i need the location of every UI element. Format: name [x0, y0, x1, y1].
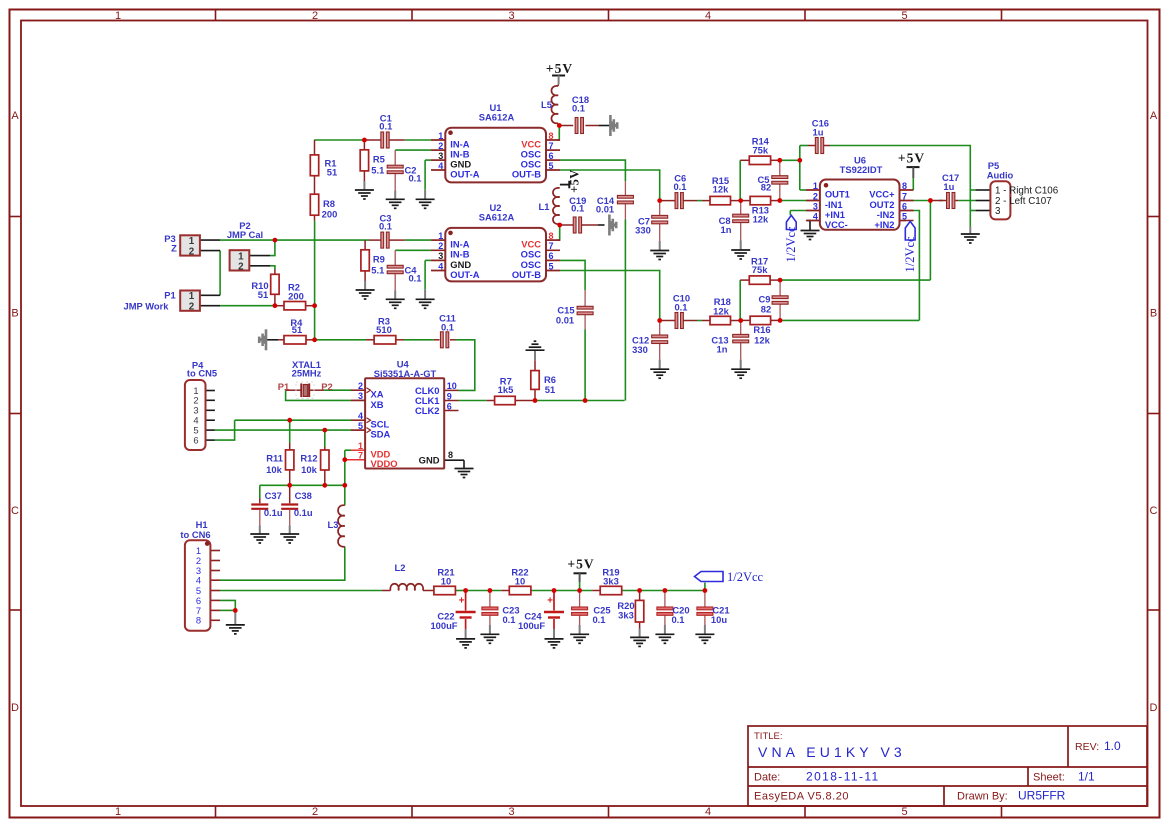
svg-text:51: 51	[258, 289, 268, 300]
svg-text:+5V: +5V	[898, 151, 925, 166]
svg-text:2: 2	[813, 191, 818, 201]
svg-text:0.1: 0.1	[673, 181, 686, 192]
svg-text:REV:: REV:	[1075, 741, 1099, 753]
svg-text:5: 5	[902, 211, 907, 221]
svg-text:12k: 12k	[713, 184, 729, 195]
svg-text:4: 4	[358, 411, 363, 421]
svg-text:7: 7	[358, 451, 363, 461]
svg-text:1u: 1u	[813, 126, 824, 137]
svg-text:to CN6: to CN6	[180, 529, 210, 540]
svg-text:6: 6	[549, 151, 554, 161]
svg-text:10: 10	[441, 576, 451, 587]
svg-text:L1: L1	[539, 201, 550, 212]
svg-text:0.01: 0.01	[556, 314, 574, 325]
svg-text:OUT-A: OUT-A	[450, 269, 479, 280]
svg-text:10u: 10u	[711, 614, 727, 625]
svg-text:5: 5	[549, 161, 554, 171]
svg-text:GND: GND	[419, 455, 440, 466]
svg-text:A: A	[1150, 110, 1158, 122]
svg-text:0.1: 0.1	[408, 172, 421, 183]
svg-text:+: +	[459, 596, 465, 607]
svg-text:200: 200	[322, 209, 338, 220]
svg-text:0.1: 0.1	[379, 121, 392, 132]
svg-text:1: 1	[813, 181, 818, 191]
svg-text:XB: XB	[371, 399, 384, 410]
svg-text:3k3: 3k3	[618, 609, 634, 620]
svg-text:75k: 75k	[752, 145, 768, 156]
svg-text:0.1: 0.1	[571, 203, 584, 214]
svg-text:OUT-B: OUT-B	[512, 168, 541, 179]
svg-text:CLK2: CLK2	[415, 405, 439, 416]
svg-text:Z: Z	[171, 242, 177, 253]
svg-text:3: 3	[508, 10, 514, 22]
svg-text:0.1: 0.1	[592, 614, 605, 625]
svg-text:2: 2	[189, 246, 195, 257]
svg-text:C: C	[11, 505, 19, 517]
svg-text:10k: 10k	[301, 464, 317, 475]
svg-text:+5V: +5V	[567, 557, 594, 572]
svg-text:C: C	[1150, 505, 1158, 517]
svg-text:1: 1	[438, 131, 443, 141]
svg-text:+5V: +5V	[568, 169, 582, 193]
svg-text:Date:: Date:	[754, 772, 780, 784]
svg-text:82: 82	[761, 182, 771, 193]
svg-text:5: 5	[549, 261, 554, 271]
svg-text:0.1u: 0.1u	[264, 507, 283, 518]
svg-text:UR5FFR: UR5FFR	[1018, 789, 1066, 803]
svg-text:200: 200	[288, 291, 304, 302]
svg-text:2: 2	[438, 141, 443, 151]
svg-text:100uF: 100uF	[518, 620, 545, 631]
svg-text:51: 51	[545, 384, 555, 395]
svg-text:1/2Vcc: 1/2Vcc	[727, 570, 764, 584]
svg-text:2: 2	[358, 381, 363, 391]
svg-text:1: 1	[115, 10, 121, 22]
svg-text:6: 6	[447, 401, 452, 411]
svg-text:VNA EU1KY V3: VNA EU1KY V3	[758, 744, 906, 760]
svg-text:R8: R8	[323, 198, 335, 209]
svg-text:JMP Work: JMP Work	[124, 301, 170, 312]
svg-text:1/2Vcc: 1/2Vcc	[784, 226, 798, 263]
svg-text:4: 4	[705, 10, 711, 22]
svg-text:2: 2	[238, 262, 244, 273]
svg-text:8: 8	[549, 131, 554, 141]
svg-text:8: 8	[196, 615, 201, 626]
svg-text:R5: R5	[373, 154, 385, 165]
svg-text:51: 51	[327, 167, 337, 178]
svg-text:12k: 12k	[754, 334, 770, 345]
svg-text:0.1: 0.1	[441, 322, 454, 333]
svg-text:VCC+: VCC+	[869, 188, 895, 199]
svg-text:4: 4	[705, 806, 711, 818]
svg-text:0.1: 0.1	[671, 614, 684, 625]
svg-text:C38: C38	[295, 490, 312, 501]
svg-text:4: 4	[438, 261, 443, 271]
svg-text:4: 4	[438, 161, 443, 171]
svg-text:0.1: 0.1	[502, 614, 515, 625]
svg-text:8: 8	[448, 450, 453, 460]
svg-text:Audio: Audio	[987, 169, 1014, 180]
svg-text:510: 510	[376, 324, 392, 335]
svg-text:12k: 12k	[753, 213, 769, 224]
svg-text:3: 3	[358, 391, 363, 401]
svg-text:1/2Vcc: 1/2Vcc	[903, 236, 917, 273]
svg-text:L2: L2	[395, 562, 406, 573]
svg-text:D: D	[1150, 702, 1158, 714]
svg-text:3: 3	[438, 251, 443, 261]
svg-text:3: 3	[438, 151, 443, 161]
svg-text:0.1: 0.1	[572, 103, 585, 114]
svg-text:1: 1	[358, 441, 363, 451]
svg-text:OUT1: OUT1	[825, 188, 850, 199]
svg-text:Drawn By:: Drawn By:	[957, 791, 1008, 803]
svg-text:L5: L5	[541, 99, 552, 110]
svg-text:5: 5	[358, 421, 363, 431]
svg-text:1k5: 1k5	[498, 384, 514, 395]
svg-text:P1: P1	[278, 381, 289, 392]
svg-text:3: 3	[813, 201, 818, 211]
svg-text:TS922IDT: TS922IDT	[840, 164, 883, 175]
svg-text:2: 2	[189, 302, 195, 313]
svg-text:2018-11-11: 2018-11-11	[806, 770, 880, 784]
svg-text:TITLE:: TITLE:	[754, 731, 783, 742]
svg-text:to CN5: to CN5	[187, 368, 217, 379]
svg-text:4: 4	[813, 211, 818, 221]
svg-text:+: +	[547, 596, 553, 607]
svg-text:1u: 1u	[943, 181, 954, 192]
svg-text:JMP Cal: JMP Cal	[227, 229, 263, 240]
svg-text:5.1: 5.1	[371, 264, 384, 275]
svg-text:10: 10	[447, 381, 457, 391]
svg-text:0.1: 0.1	[674, 302, 687, 313]
svg-text:330: 330	[635, 224, 651, 235]
svg-text:1.0: 1.0	[1104, 739, 1121, 753]
svg-text:1 - Right C106: 1 - Right C106	[995, 186, 1059, 197]
svg-text:10k: 10k	[266, 464, 282, 475]
svg-text:B: B	[1150, 308, 1157, 320]
svg-text:5: 5	[901, 10, 907, 22]
svg-text:2: 2	[438, 241, 443, 251]
svg-text:100uF: 100uF	[430, 620, 457, 631]
svg-text:EasyEDA V5.8.20: EasyEDA V5.8.20	[754, 791, 849, 803]
svg-text:A: A	[11, 110, 19, 122]
svg-text:1: 1	[115, 806, 121, 818]
svg-text:1n: 1n	[721, 224, 732, 235]
svg-text:0.01: 0.01	[596, 204, 614, 215]
svg-text:SDA: SDA	[371, 429, 391, 440]
svg-text:+IN2: +IN2	[874, 219, 894, 230]
svg-text:5: 5	[901, 806, 907, 818]
svg-text:OUT-B: OUT-B	[512, 269, 541, 280]
svg-text:6: 6	[902, 201, 907, 211]
svg-text:3k3: 3k3	[603, 576, 619, 587]
svg-text:82: 82	[761, 304, 771, 315]
svg-text:1: 1	[189, 236, 195, 247]
svg-text:L3: L3	[328, 519, 339, 530]
svg-text:1: 1	[189, 291, 195, 302]
svg-text:330: 330	[632, 344, 648, 355]
svg-text:2 - Left C107: 2 - Left C107	[995, 196, 1052, 207]
svg-text:+5V: +5V	[546, 61, 573, 76]
svg-text:9: 9	[447, 391, 452, 401]
svg-text:C37: C37	[265, 490, 282, 501]
svg-text:Sheet:: Sheet:	[1033, 772, 1065, 784]
svg-text:SA612A: SA612A	[479, 112, 515, 123]
svg-text:7: 7	[549, 141, 554, 151]
svg-text:25MHz: 25MHz	[292, 368, 322, 379]
svg-text:8: 8	[549, 231, 554, 241]
svg-text:2: 2	[312, 10, 318, 22]
svg-text:0.1u: 0.1u	[294, 507, 313, 518]
svg-text:12k: 12k	[713, 306, 729, 317]
svg-text:D: D	[11, 702, 19, 714]
svg-text:0.1: 0.1	[379, 221, 392, 232]
svg-text:1n: 1n	[717, 344, 728, 355]
svg-text:Si5351A-A-GT: Si5351A-A-GT	[374, 368, 437, 379]
svg-text:VDDO: VDDO	[371, 458, 398, 469]
svg-text:5.1: 5.1	[371, 164, 384, 175]
svg-text:8: 8	[902, 181, 907, 191]
svg-text:P1: P1	[164, 290, 175, 301]
svg-text:1: 1	[438, 231, 443, 241]
svg-text:R9: R9	[373, 254, 385, 265]
svg-text:6: 6	[193, 435, 198, 446]
svg-text:51: 51	[292, 324, 302, 335]
svg-text:R12: R12	[300, 452, 317, 463]
svg-text:3: 3	[995, 206, 1001, 217]
svg-text:B: B	[11, 308, 18, 320]
svg-text:SA612A: SA612A	[479, 211, 515, 222]
svg-text:VCC-: VCC-	[825, 219, 848, 230]
svg-text:0.1: 0.1	[408, 272, 421, 283]
svg-text:1/1: 1/1	[1078, 770, 1095, 784]
svg-text:75k: 75k	[752, 264, 768, 275]
svg-text:2: 2	[312, 806, 318, 818]
svg-text:7: 7	[549, 241, 554, 251]
svg-text:P2: P2	[321, 381, 332, 392]
svg-text:R11: R11	[266, 452, 283, 463]
svg-text:6: 6	[549, 251, 554, 261]
svg-text:7: 7	[902, 191, 907, 201]
svg-text:3: 3	[508, 806, 514, 818]
svg-text:10: 10	[515, 576, 525, 587]
svg-text:OUT-A: OUT-A	[450, 168, 479, 179]
